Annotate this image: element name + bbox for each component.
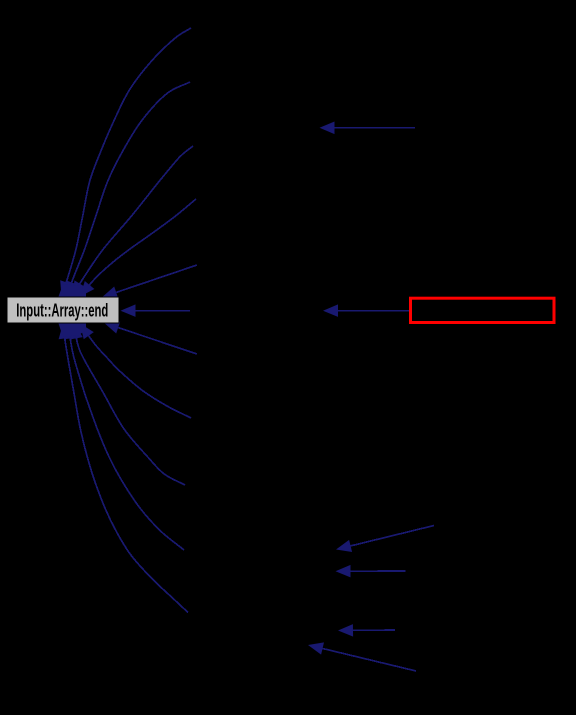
edge F7: straight caller edge into Input::Array::end <box>118 328 197 354</box>
arrow Eb1: second-level caller edge <box>351 526 434 546</box>
arrow Etop: second-level caller edge <box>335 127 416 129</box>
edge F4: curved caller edge into Input::Array::end <box>80 199 196 297</box>
edge F5: straight caller edge into Input::Array::end <box>116 265 197 292</box>
arrow Eb3: second-level caller edge <box>353 629 395 631</box>
edge F2: curved caller edge into Input::Array::end <box>67 82 191 297</box>
node Input::Array::end <box>7 297 119 323</box>
arrowhead cluster filler top <box>59 284 87 297</box>
arrow Ered: second-level caller edge <box>338 310 409 312</box>
svg-text:Input::Array::end: Input::Array::end <box>16 300 108 320</box>
edge F1: curved caller edge into Input::Array::end <box>62 28 192 297</box>
arrow Eb2: second-level caller edge <box>351 570 406 572</box>
arrow Eb4: second-level caller edge <box>323 649 416 672</box>
edge F11: curved caller edge into Input::Array::end <box>63 324 188 613</box>
node red (truncated) <box>411 298 555 322</box>
edge F9: curved caller edge into Input::Array::end <box>74 324 185 486</box>
arrowhead cluster filler bottom <box>59 324 87 338</box>
edge F8: curved caller edge into Input::Array::end <box>80 324 191 419</box>
edge F6: straight caller edge into Input::Array::end <box>136 310 191 312</box>
edge F10: curved caller edge into Input::Array::end <box>69 324 185 551</box>
edge F3: curved caller edge into Input::Array::end <box>72 146 193 297</box>
